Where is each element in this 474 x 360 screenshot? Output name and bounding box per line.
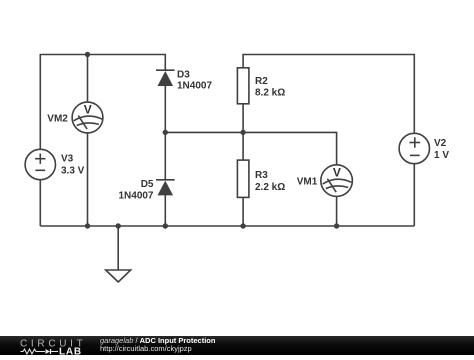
svg-text:R3: R3	[255, 170, 268, 181]
wire: R3 bottom lead	[242, 197, 244, 226]
svg-text:LAB: LAB	[59, 347, 82, 356]
svg-text:D5: D5	[141, 179, 154, 190]
wire: VM2 top lead	[87, 55, 89, 103]
junction node at D5 bottom (165.3,226)	[163, 223, 168, 228]
svg-text:3.3 V: 3.3 V	[61, 166, 85, 177]
voltage source V3	[25, 149, 55, 179]
label V2 value	[434, 138, 449, 161]
junction node at VM1 bottom (336.6,226)	[334, 223, 339, 228]
resistor R3	[237, 160, 249, 197]
svg-text:VM2: VM2	[47, 113, 68, 124]
wire: D3 anode to middle node	[164, 86, 166, 133]
voltage source V2	[399, 133, 429, 163]
junction node at VM2 top (87.5,54.5)	[85, 52, 90, 57]
voltmeter VM1	[321, 165, 353, 197]
wire: R2 bottom lead	[242, 104, 244, 133]
svg-text:V: V	[84, 103, 92, 117]
svg-text:D3: D3	[177, 70, 190, 81]
junction node at R2/R3 midpoint (243.1,132.4)	[240, 130, 245, 135]
junction node at VM2 bottom (87.5,226)	[85, 223, 90, 228]
svg-text:V2: V2	[434, 138, 447, 149]
wire: V3 bottom lead	[39, 180, 41, 227]
wire: top-left rail from VM2 node to D3 cathode	[88, 55, 166, 71]
svg-text:R2: R2	[255, 76, 268, 87]
wire: D5 top lead	[164, 132, 166, 180]
wire: top-right rail from R2 to V2	[243, 55, 414, 134]
svg-text:V3: V3	[61, 154, 74, 165]
svg-text:1N4007: 1N4007	[177, 81, 212, 92]
CircuitLab logo	[0, 336, 90, 355]
wire: VM1 bottom lead	[336, 196, 338, 226]
svg-text:1N4007: 1N4007	[118, 191, 153, 202]
ground	[106, 270, 131, 282]
footer credit text	[100, 336, 215, 353]
label D5 value	[118, 179, 153, 201]
svg-text:1 V: 1 V	[434, 150, 449, 161]
junction node at R3 bottom (243.1,226)	[240, 223, 245, 228]
diode D5	[156, 180, 175, 196]
wire: V2 bottom lead	[413, 164, 415, 227]
svg-text:V: V	[333, 166, 341, 180]
footer bar	[0, 336, 474, 355]
wire: D5 bottom lead	[164, 195, 166, 226]
svg-text:VM1: VM1	[297, 176, 318, 187]
label R2 value	[255, 76, 285, 99]
wire: middle rail from diode node to R2/R3 node to VM1	[165, 132, 336, 164]
wire: ground stem	[117, 226, 119, 270]
label D3 value	[177, 70, 212, 92]
voltmeter VM2	[72, 102, 103, 133]
wire: V3 top lead up to top-left rail	[40, 55, 87, 151]
junction node at diode midpoint (165.3,132.4)	[163, 130, 168, 135]
label V3 value	[61, 154, 85, 177]
wire: VM2 bottom lead	[87, 133, 89, 226]
svg-text:2.2 kΩ: 2.2 kΩ	[255, 182, 285, 193]
label R3 value	[255, 170, 285, 193]
svg-text:8.2 kΩ: 8.2 kΩ	[255, 88, 285, 99]
wire: bottom ground rail	[40, 225, 414, 227]
junction node at ground stem (118.2,226)	[116, 223, 121, 228]
resistor R2	[237, 68, 249, 104]
diode D3	[156, 70, 175, 86]
wire: R3 top lead	[242, 132, 244, 160]
